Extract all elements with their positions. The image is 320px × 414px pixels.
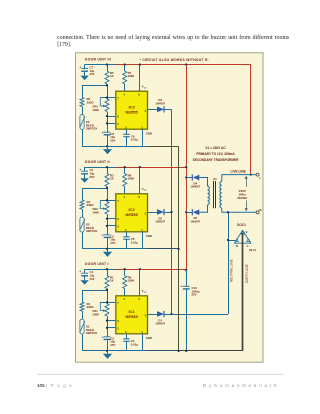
transformer X1 secondary winding — [208, 186, 210, 205]
ground symbol below C5 — [103, 249, 112, 257]
svg-text:EARTH LINE: EARTH LINE — [245, 264, 249, 283]
transformer note text — [193, 146, 240, 162]
node junction red/live line — [250, 173, 252, 175]
node junction Vcc/unit II rail — [185, 166, 187, 168]
wire R3 bottom to VR2 top — [107, 187, 109, 202]
node junction C10 / bottom rail — [185, 350, 187, 352]
resistor R8 100K — [123, 167, 136, 194]
wire pin 1 to ground rail, GND label — [143, 129, 153, 146]
resistor R5 1K — [105, 65, 115, 85]
terminal N — [256, 208, 261, 214]
capacitor C6 0.01u on pin 5 — [123, 232, 138, 249]
svg-text:1N4007: 1N4007 — [190, 185, 200, 189]
svg-text:+: + — [102, 131, 104, 135]
svg-text:25V: 25V — [110, 241, 115, 245]
capacitor C10 1000u 25V — [180, 270, 199, 351]
svg-text:25V: 25V — [192, 293, 197, 297]
svg-text:GND: GND — [146, 132, 152, 136]
diode D4 1N4007 — [190, 174, 200, 188]
svg-text:1N4007: 1N4007 — [155, 220, 165, 224]
wire pin 8 to rail, Vcc label — [140, 167, 148, 194]
svg-text:1N4007: 1N4007 — [155, 322, 165, 326]
node junction pin6 — [106, 217, 108, 219]
svg-text:SWITCH: SWITCH — [86, 127, 97, 131]
wire pin 6 — [107, 320, 116, 322]
capacitor C1 10u 25V — [79, 269, 94, 281]
wire ground rail unit II — [82, 248, 148, 250]
svg-text:25V: 25V — [110, 138, 115, 142]
svg-text:100K: 100K — [92, 313, 100, 317]
wire Vcc rail unit III (red part) — [116, 64, 251, 66]
ground symbol under C4 — [80, 178, 88, 183]
svg-text:E: E — [246, 230, 248, 234]
diode D1 — [155, 311, 165, 326]
terminal L — [256, 173, 261, 180]
wire pin 8 to rail, Vcc label — [140, 65, 148, 92]
resistor R7 100K — [123, 65, 136, 92]
wire neutral (N) line — [222, 208, 256, 212]
svg-text:NE555: NE555 — [125, 109, 138, 114]
wire neutral vertical — [228, 212, 230, 314]
wire Vcc rail unit III (teal part) — [85, 64, 116, 66]
wire ground rail unit III — [82, 146, 148, 148]
svg-text:25V: 25V — [90, 277, 95, 281]
wire Vcc to D6 — [186, 212, 192, 214]
wire link to R2 — [82, 290, 107, 292]
svg-text:+: + — [79, 65, 81, 69]
capacitor C4 10u 25V — [79, 167, 94, 179]
preset VR3 100K — [92, 98, 109, 112]
wire timing node — [107, 214, 109, 235]
wire pin 7 — [100, 97, 116, 99]
wire timing node — [107, 316, 109, 337]
svg-text:LIVE LINE: LIVE LINE — [231, 170, 246, 174]
wire pin 7 — [100, 200, 116, 202]
resistor R6 330-ohm — [80, 85, 94, 106]
wire live line — [222, 170, 256, 182]
node junction rail/R7 — [124, 63, 126, 65]
node junction Vcc/D4 — [185, 176, 187, 178]
wire ground bus vertical (olive) — [178, 146, 180, 351]
capacitor C8 10u 25V — [102, 131, 116, 147]
svg-text:+: + — [102, 335, 104, 339]
wire Vcc rail unit I (teal part) — [85, 269, 116, 271]
svg-text:330Ω: 330Ω — [87, 101, 95, 105]
footer rule — [37, 374, 284, 376]
svg-text:100K: 100K — [128, 74, 136, 78]
wire D1 cathode to common line — [164, 314, 171, 316]
preset VR1 100K — [92, 302, 109, 316]
node junction Vcc/unit I rail/C10 — [185, 269, 187, 271]
wire pin 3 output — [148, 314, 158, 316]
wire S1 to ground rail — [82, 334, 84, 351]
reed switch S3 — [80, 107, 98, 131]
svg-text:X1 = 230V AC: X1 = 230V AC — [205, 146, 226, 150]
wire pin 7 — [100, 302, 116, 304]
node junction pin2 — [106, 225, 108, 227]
door unit II section — [85, 160, 110, 164]
svg-text:25V: 25V — [110, 343, 115, 347]
node junction ground bus / unit II rail — [177, 248, 179, 250]
wire S3 to ground rail — [82, 130, 84, 147]
resistor R1 1K — [105, 269, 115, 289]
wire D4 to secondary top — [199, 178, 207, 187]
230V 50Hz MAINS annotation — [237, 176, 247, 211]
svg-text:PRIMARY TO 12V, 300mA: PRIMARY TO 12V, 300mA — [196, 152, 235, 156]
capacitor C9 0.01u on pin 5 — [123, 129, 138, 146]
node junction Vcc/unit III rail — [185, 63, 187, 65]
capacitor C7 10u 25V — [79, 65, 94, 77]
wire Vcc rail unit I (red part) — [116, 269, 186, 271]
door unit I section — [85, 262, 109, 266]
svg-text:0.01µ: 0.01µ — [131, 342, 139, 346]
svg-text:330Ω: 330Ω — [87, 305, 95, 309]
door unit III section — [85, 58, 111, 62]
diode D3 — [155, 98, 165, 112]
svg-text:SWITCH: SWITCH — [86, 229, 97, 233]
wire pin 3 output — [148, 109, 158, 111]
wire red drop to live line — [250, 65, 252, 175]
wire pin 1 to ground rail, GND label — [143, 334, 153, 351]
wire bottom earth return — [179, 350, 243, 352]
svg-text:+: + — [102, 233, 104, 237]
node junction rail/pin8 — [139, 268, 141, 270]
node junction rail/R8 — [124, 166, 126, 168]
svg-text:NE555: NE555 — [125, 314, 138, 319]
node junction rail/pin8 — [139, 166, 141, 168]
wire diode common vertical line — [171, 109, 173, 314]
wire pin 6 — [107, 116, 116, 118]
node junction cap/ground rail — [106, 350, 108, 352]
svg-text:100K: 100K — [128, 279, 136, 283]
resistor R3 1K — [105, 167, 115, 187]
ground symbol under C1 — [80, 280, 88, 285]
svg-text:100K: 100K — [92, 108, 100, 112]
wire pin 2 — [107, 123, 116, 125]
node junction cap/ground rail — [106, 248, 108, 250]
node junction rail/R1 — [106, 268, 108, 270]
ground symbol under C7 — [80, 76, 88, 81]
wire link to R6 — [82, 85, 107, 87]
node junction D2/common — [170, 211, 172, 213]
node junction pin7/VR — [106, 301, 108, 303]
svg-text:+: + — [180, 284, 182, 288]
node junction discharge — [106, 84, 108, 86]
node junction rail/pin8 — [139, 63, 141, 65]
svg-text:DOOR UNIT III: DOOR UNIT III — [85, 58, 111, 62]
wire pin 2 — [107, 327, 116, 329]
node junction rail/R3 — [106, 166, 108, 168]
svg-text:connection. There is no need o: connection. There is no need of laying e… — [57, 34, 290, 41]
svg-text:100K: 100K — [92, 211, 100, 215]
svg-text:B y S u m a n D e b n a t h: B y S u m a n D e b n a t h — [203, 383, 277, 388]
svg-text:1N4007: 1N4007 — [155, 101, 165, 105]
svg-text:100K: 100K — [128, 177, 136, 181]
reed switch S2 — [80, 209, 98, 233]
reed switch S1 — [80, 311, 98, 335]
svg-text:25V: 25V — [90, 175, 95, 179]
node junction pin7/VR — [106, 97, 108, 99]
node junction pin7/VR — [106, 199, 108, 201]
wire Vcc rail unit II (teal part) — [85, 167, 116, 169]
socket SOC1 — [234, 223, 256, 252]
schematic panel background — [76, 53, 264, 362]
diode D6 1N4007 — [190, 209, 200, 223]
wire pin 1 to ground rail, GND label — [143, 232, 153, 249]
svg-text:DOOR UNIT I: DOOR UNIT I — [85, 262, 109, 266]
svg-text:330Ω: 330Ω — [87, 203, 95, 207]
wire socket N pin branch — [228, 240, 236, 242]
svg-text:MAINS: MAINS — [237, 196, 247, 200]
wire D1 output to neutral drop — [172, 314, 229, 316]
svg-text:105 | P a g e: 105 | P a g e — [37, 383, 73, 388]
svg-text:SECONDARY TRANSFORMER: SECONDARY TRANSFORMER — [193, 158, 240, 162]
preset VR2 100K — [92, 200, 109, 214]
wire S2 to ground rail — [82, 232, 84, 249]
wire timing node — [107, 112, 109, 133]
svg-text:GND: GND — [146, 336, 152, 340]
svg-text:[179].: [179]. — [57, 42, 72, 48]
wire Vcc bus vertical (red) — [186, 65, 188, 271]
svg-text:0.01µ: 0.01µ — [131, 240, 139, 244]
wire Vcc rail unit II (red part) — [116, 167, 186, 169]
svg-text:(N.C): (N.C) — [249, 248, 256, 252]
op-amp/timer IC2 NE555 — [116, 194, 148, 232]
node junction D1/common — [170, 313, 172, 315]
svg-text:NEUTRAL LINE: NEUTRAL LINE — [230, 259, 234, 282]
resistor R4 330-ohm — [80, 188, 94, 209]
wire D6 to secondary bottom — [199, 205, 207, 213]
transformer X1 core — [213, 177, 217, 208]
node junction discharge — [106, 289, 108, 291]
svg-text:N: N — [236, 244, 238, 248]
wire link to R4 — [82, 188, 107, 190]
svg-text:25V: 25V — [90, 72, 95, 76]
wire pin 3 output — [148, 212, 158, 214]
wire D2 cathode to common line — [164, 212, 171, 214]
wire pin 2 — [107, 225, 116, 227]
wire pin 6 — [107, 218, 116, 220]
svg-text:GND: GND — [146, 234, 152, 238]
wire R5 bottom to VR3 top — [107, 84, 109, 99]
node junction pin6 — [106, 115, 108, 117]
node junction ground bus / bottom rail — [177, 350, 179, 352]
wire D3 cathode to common line — [164, 109, 171, 111]
node junction rail/R5 — [106, 63, 108, 65]
svg-text:1N4007: 1N4007 — [190, 219, 200, 223]
node junction discharge — [106, 187, 108, 189]
wire ground rail unit I — [82, 350, 148, 352]
svg-text:* CIRCUIT ALSO WORKS WITHOUT R: * CIRCUIT ALSO WORKS WITHOUT R. — [140, 58, 210, 62]
node junction N line / neutral drop — [227, 211, 229, 213]
diode D2 — [155, 209, 165, 224]
wire pin 8 to rail, Vcc label — [140, 269, 148, 296]
capacitor C5 10u 25V — [102, 233, 116, 249]
svg-text:+: + — [79, 168, 81, 172]
capacitor C2 10u 25V — [102, 335, 116, 351]
node junction rail/R9 — [124, 268, 126, 270]
node junction neutral/socket branch — [227, 239, 229, 241]
resistor R2 330-ohm — [80, 290, 94, 311]
node junction pin2 — [106, 122, 108, 124]
svg-text:0.01µ: 0.01µ — [131, 138, 139, 142]
svg-text:DOOR UNIT II: DOOR UNIT II — [85, 160, 110, 164]
wire R1 bottom to VR1 top — [107, 289, 109, 304]
ground symbol below C2 — [103, 351, 112, 359]
transformer X1 primary winding — [220, 182, 222, 209]
svg-text:X1: X1 — [213, 177, 217, 181]
wire earth line vertical — [242, 233, 244, 351]
svg-text:SWITCH: SWITCH — [86, 331, 97, 335]
svg-text:+: + — [79, 270, 81, 274]
node junction pin6 — [106, 319, 108, 321]
capacitor C3 0.01u on pin 5 — [123, 334, 138, 351]
op-amp/timer IC1 NE555 — [116, 296, 148, 334]
resistor R9 100K — [123, 269, 136, 296]
node junction Vcc/D6 — [185, 211, 187, 213]
op-amp/timer IC3 NE555 — [116, 91, 148, 129]
ground symbol below C8 — [103, 146, 112, 154]
svg-text:N: N — [259, 208, 261, 212]
node junction pin2 — [106, 327, 108, 329]
wire Vcc to D4 — [186, 177, 192, 179]
svg-text:L: L — [259, 176, 261, 180]
node junction cap/ground rail — [106, 145, 108, 147]
svg-text:NE555: NE555 — [125, 212, 138, 217]
svg-text:SOC1: SOC1 — [237, 223, 246, 227]
